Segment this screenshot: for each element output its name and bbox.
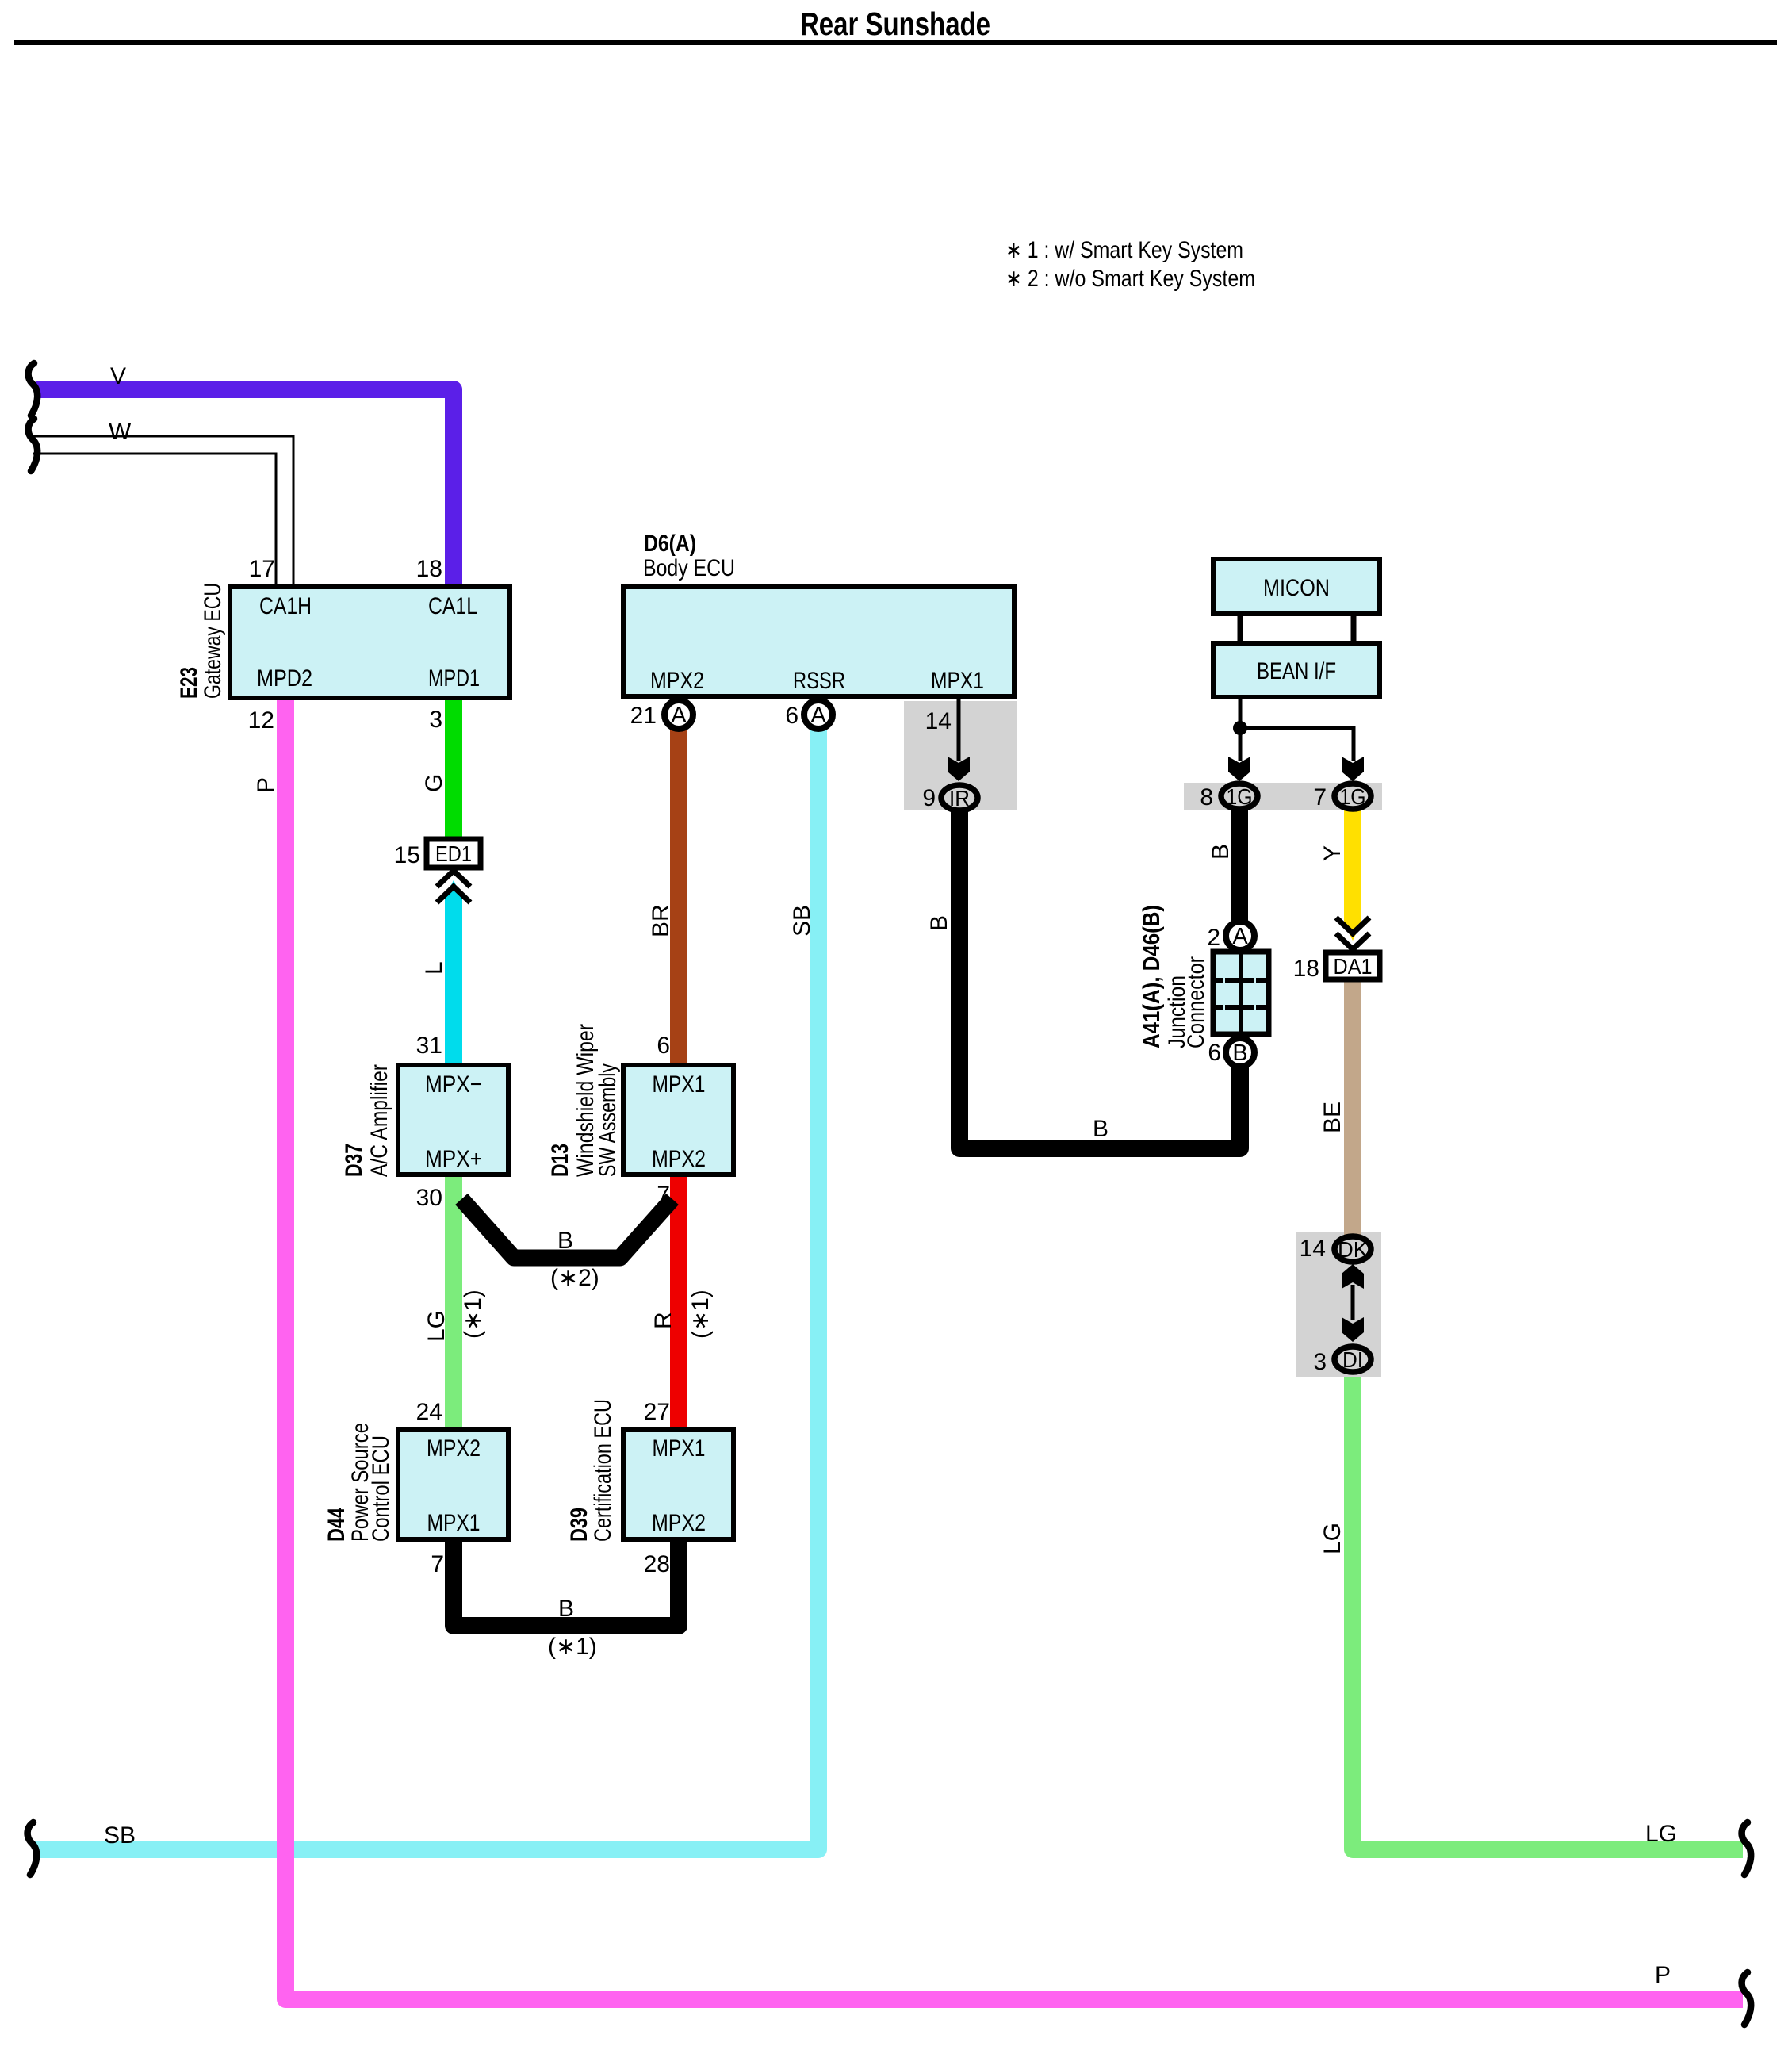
junction connector A41(A), D46(B): [1213, 952, 1269, 1034]
svg-text:(∗1): (∗1): [460, 1289, 486, 1339]
svg-text:24: 24: [416, 1399, 442, 1425]
block BEAN I/F: [1213, 643, 1380, 697]
svg-text:E23: E23: [176, 667, 202, 699]
svg-text:3: 3: [429, 707, 442, 733]
svg-text:Y: Y: [1319, 845, 1346, 861]
wire L (cyan) from ED1 arrow to D37 MPX-: [445, 897, 462, 1063]
svg-text:BEAN I/F: BEAN I/F: [1257, 658, 1336, 684]
junction connector center divider: [1239, 952, 1243, 1034]
wire W (white, outlined) outer line: [33, 436, 293, 584]
svg-text:17: 17: [249, 556, 275, 582]
solid arrow to 1G pin 8: [1228, 757, 1250, 781]
outline chevron arrow at DA1 upper: [1336, 918, 1369, 933]
svg-text:G: G: [421, 774, 447, 792]
svg-text:∗ 1 : w/ Smart Key System: ∗ 1 : w/ Smart Key System: [1005, 237, 1243, 263]
svg-text:8: 8: [1200, 784, 1213, 810]
svg-text:28: 28: [644, 1551, 670, 1577]
solid arrow up below DK: [1342, 1264, 1364, 1289]
svg-text:Connector: Connector: [1183, 956, 1209, 1048]
block D44 Power Source Control ECU: [398, 1430, 508, 1539]
oval IR: [941, 785, 978, 810]
svg-text:D44: D44: [324, 1508, 350, 1542]
svg-text:MPD1: MPD1: [428, 665, 480, 692]
solid arrow to IR: [948, 757, 970, 781]
block E23 Gateway ECU: [230, 587, 510, 698]
wire LG (light green) DI to right edge: [1353, 1377, 1743, 1849]
svg-text:7: 7: [1313, 784, 1327, 810]
svg-text:31: 31: [416, 1033, 442, 1059]
oval DI: [1334, 1347, 1371, 1372]
wire BE (beige) DA1 to DK: [1344, 982, 1361, 1236]
svg-text:21: 21: [630, 703, 657, 729]
wire B (*1) between D44 pin 7 and D39 pin 28: [454, 1542, 679, 1626]
svg-text:MPX1: MPX1: [427, 1510, 481, 1536]
svg-text:DK: DK: [1338, 1237, 1368, 1262]
svg-text:6: 6: [785, 703, 798, 729]
svg-text:(∗2): (∗2): [550, 1265, 599, 1291]
svg-text:A: A: [671, 703, 687, 728]
thin line MPX1 to IR arrow: [957, 699, 961, 761]
wire W inner line: [33, 454, 276, 584]
svg-text:14: 14: [1300, 1236, 1326, 1262]
connector DA1: [1326, 952, 1380, 979]
svg-text:18: 18: [1293, 956, 1319, 982]
svg-text:B: B: [1208, 844, 1234, 860]
svg-text:Control ECU: Control ECU: [368, 1435, 394, 1542]
brace LG: [1742, 1822, 1752, 1875]
svg-text:27: 27: [644, 1399, 670, 1425]
junction connector dashed row divider 1: [1214, 978, 1267, 983]
svg-text:1G: 1G: [1227, 784, 1253, 809]
oval 1G pin 7: [1334, 784, 1371, 809]
svg-text:12: 12: [248, 707, 274, 734]
svg-text:(∗1): (∗1): [687, 1289, 714, 1339]
svg-text:P: P: [253, 777, 279, 793]
svg-text:IR: IR: [949, 786, 970, 810]
block D13 Windshield Wiper SW Assembly: [623, 1065, 733, 1175]
svg-text:DA1: DA1: [1334, 954, 1373, 979]
svg-text:18: 18: [416, 556, 442, 582]
svg-text:MPX2: MPX2: [650, 668, 704, 694]
brace SB: [28, 1822, 37, 1875]
brace V: [29, 363, 38, 416]
outline chevron arrow at DA1 lower: [1336, 933, 1369, 949]
wire P (pink) from MPD2 pin 12 to right edge: [285, 700, 1743, 1999]
gray box DK/DI: [1296, 1232, 1381, 1377]
svg-text:(∗1): (∗1): [548, 1634, 597, 1660]
svg-text:D39: D39: [566, 1508, 592, 1542]
block MICON: [1213, 559, 1380, 614]
block D39 Certification ECU: [623, 1430, 733, 1539]
svg-text:1G: 1G: [1340, 784, 1366, 809]
gray box at Body ECU MPX1: [904, 701, 1017, 810]
svg-text:B: B: [1093, 1116, 1109, 1142]
circle A pin 21: [664, 700, 693, 729]
svg-text:D37: D37: [341, 1144, 367, 1177]
connector ED1: [427, 839, 481, 868]
wire V (violet): [36, 389, 454, 588]
svg-text:MPX−: MPX−: [425, 1071, 482, 1098]
svg-text:Gateway ECU: Gateway ECU: [200, 583, 226, 699]
wire G (green) from MPD1 pin 3 to ED1: [445, 700, 462, 837]
oval 1G pin 8: [1221, 784, 1258, 809]
wire LG (light green) D37 MPX+ to D44 MPX2: [445, 1177, 462, 1427]
wire B from 1G pin 8 to junction connector A: [1231, 809, 1248, 922]
svg-text:Rear Sunshade: Rear Sunshade: [800, 6, 990, 42]
svg-text:7: 7: [431, 1551, 444, 1577]
circle A junction connector pin 2: [1226, 922, 1254, 950]
svg-text:MPX1: MPX1: [653, 1071, 706, 1098]
wire SB (sky blue) from RSSR pin 6 to left edge: [33, 730, 818, 1849]
svg-text:SW Assembly: SW Assembly: [595, 1063, 621, 1177]
wire Y (yellow) from 1G pin 7 to DA1: [1344, 809, 1361, 923]
wire BR (brown) Body ECU MPX2 to D13 MPX1: [670, 730, 687, 1063]
svg-text:3: 3: [1313, 1349, 1327, 1375]
svg-text:7: 7: [657, 1182, 670, 1208]
svg-text:Certification ECU: Certification ECU: [590, 1399, 616, 1542]
wire B (*2) between pin 30 and pin 7: [461, 1199, 672, 1258]
line BEAN to junction dot: [1239, 699, 1243, 761]
svg-text:A: A: [810, 703, 826, 728]
solid arrow to 1G pin 7: [1342, 757, 1364, 781]
svg-text:B: B: [557, 1228, 573, 1254]
wire L arrow tip: [445, 880, 462, 898]
svg-text:15: 15: [394, 842, 420, 868]
svg-text:LG: LG: [1319, 1523, 1346, 1554]
svg-text:D6(A): D6(A): [644, 531, 696, 557]
block D6(A) Body ECU: [623, 587, 1014, 696]
wire B from IR to junction connector B: [959, 809, 1240, 1148]
svg-text:MPX2: MPX2: [652, 1510, 706, 1536]
svg-text:W: W: [109, 419, 132, 445]
svg-text:9: 9: [922, 785, 936, 811]
svg-text:A: A: [1232, 924, 1248, 949]
MICON-BEAN connector line left: [1238, 616, 1243, 641]
brace W: [29, 419, 38, 471]
svg-text:SB: SB: [104, 1822, 136, 1849]
svg-text:D13: D13: [547, 1144, 573, 1177]
svg-text:B: B: [926, 915, 952, 931]
svg-text:B: B: [1232, 1040, 1247, 1066]
svg-text:BE: BE: [1319, 1102, 1346, 1133]
svg-text:RSSR: RSSR: [793, 668, 845, 694]
svg-text:R: R: [650, 1312, 676, 1329]
svg-text:V: V: [110, 363, 126, 389]
junction dot: [1233, 721, 1247, 735]
svg-text:BR: BR: [648, 904, 674, 937]
svg-text:CA1H: CA1H: [259, 593, 312, 619]
svg-text:14: 14: [925, 708, 952, 734]
svg-text:P: P: [1655, 1962, 1671, 1988]
solid arrow down above DI: [1342, 1317, 1364, 1342]
junction connector dashed row divider 2: [1214, 1005, 1267, 1010]
svg-text:MPX1: MPX1: [931, 668, 984, 694]
svg-text:CA1L: CA1L: [428, 593, 477, 619]
svg-text:A/C Amplifier: A/C Amplifier: [366, 1064, 392, 1177]
svg-text:ED1: ED1: [435, 841, 472, 866]
svg-text:MPX+: MPX+: [425, 1146, 482, 1172]
circle B junction connector pin 6: [1226, 1038, 1254, 1067]
svg-text:2: 2: [1207, 925, 1220, 951]
svg-text:MPD2: MPD2: [257, 665, 312, 692]
svg-text:DI: DI: [1342, 1347, 1363, 1372]
svg-text:LG: LG: [423, 1310, 450, 1342]
outline chevron arrow at ED1 lower: [437, 887, 470, 902]
svg-text:L: L: [421, 961, 447, 975]
svg-text:MPX2: MPX2: [652, 1146, 706, 1172]
svg-text:MPX1: MPX1: [653, 1435, 706, 1462]
wire R (red) D13 MPX2 to D39 MPX1: [670, 1177, 687, 1427]
svg-text:SB: SB: [789, 905, 815, 937]
svg-text:LG: LG: [1645, 1821, 1677, 1847]
thin link line DK-DI: [1351, 1285, 1355, 1320]
line dot to right branch: [1240, 728, 1354, 761]
svg-text:∗ 2 : w/o Smart Key System: ∗ 2 : w/o Smart Key System: [1005, 266, 1255, 292]
brace P: [1742, 1972, 1752, 2025]
top rule: [14, 40, 1777, 45]
svg-text:A41(A), D46(B): A41(A), D46(B): [1139, 905, 1165, 1048]
svg-text:Body ECU: Body ECU: [643, 555, 735, 581]
circle A pin 6: [804, 700, 833, 729]
gray band at 1G connectors: [1184, 783, 1382, 810]
svg-text:B: B: [558, 1596, 574, 1622]
svg-text:MPX2: MPX2: [427, 1435, 481, 1462]
svg-text:30: 30: [416, 1185, 442, 1211]
oval DK: [1334, 1236, 1371, 1262]
block D37 A/C Amplifier: [398, 1065, 508, 1175]
svg-text:6: 6: [657, 1033, 670, 1059]
outline chevron arrow at ED1 upper: [437, 871, 470, 887]
svg-text:6: 6: [1208, 1040, 1221, 1066]
svg-text:MICON: MICON: [1263, 575, 1330, 601]
wire Y arrow tip: [1344, 922, 1361, 941]
MICON-BEAN connector line right: [1351, 616, 1357, 641]
